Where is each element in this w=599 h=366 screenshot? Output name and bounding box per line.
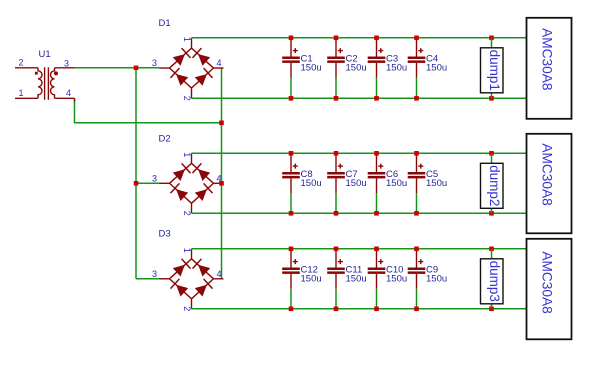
svg-text:150u: 150u [386,273,407,284]
svg-text:150u: 150u [426,178,447,189]
svg-text:150u: 150u [386,62,407,73]
svg-text:AMC30A8: AMC30A8 [540,28,555,91]
svg-text:150u: 150u [346,178,367,189]
svg-text:dump1: dump1 [487,50,502,91]
svg-text:1: 1 [182,248,192,253]
svg-text:150u: 150u [346,62,367,73]
svg-text:4: 4 [216,269,221,279]
svg-text:U1: U1 [39,49,51,60]
svg-text:dump2: dump2 [487,165,502,206]
svg-text:150u: 150u [346,273,367,284]
svg-text:AMC30A8: AMC30A8 [540,251,555,314]
svg-text:150u: 150u [301,178,322,189]
svg-text:2: 2 [182,211,192,216]
svg-text:150u: 150u [301,273,322,284]
svg-text:150u: 150u [426,273,447,284]
svg-text:3: 3 [152,58,157,68]
svg-text:dump3: dump3 [487,261,502,302]
svg-text:1: 1 [182,152,192,157]
svg-text:1: 1 [19,88,24,98]
svg-text:2: 2 [19,57,24,67]
svg-text:150u: 150u [386,178,407,189]
svg-text:150u: 150u [426,62,447,73]
svg-text:D3: D3 [159,228,171,239]
svg-text:1: 1 [182,37,192,42]
svg-text:D2: D2 [159,133,171,144]
svg-text:4: 4 [216,58,221,68]
svg-text:4: 4 [66,88,71,98]
svg-text:2: 2 [182,306,192,311]
svg-text:3: 3 [152,269,157,279]
svg-text:2: 2 [182,96,192,101]
svg-text:3: 3 [64,58,69,68]
svg-text:3: 3 [152,173,157,183]
svg-text:AMC30A8: AMC30A8 [540,143,555,206]
svg-text:150u: 150u [301,62,322,73]
svg-text:D1: D1 [159,18,171,29]
